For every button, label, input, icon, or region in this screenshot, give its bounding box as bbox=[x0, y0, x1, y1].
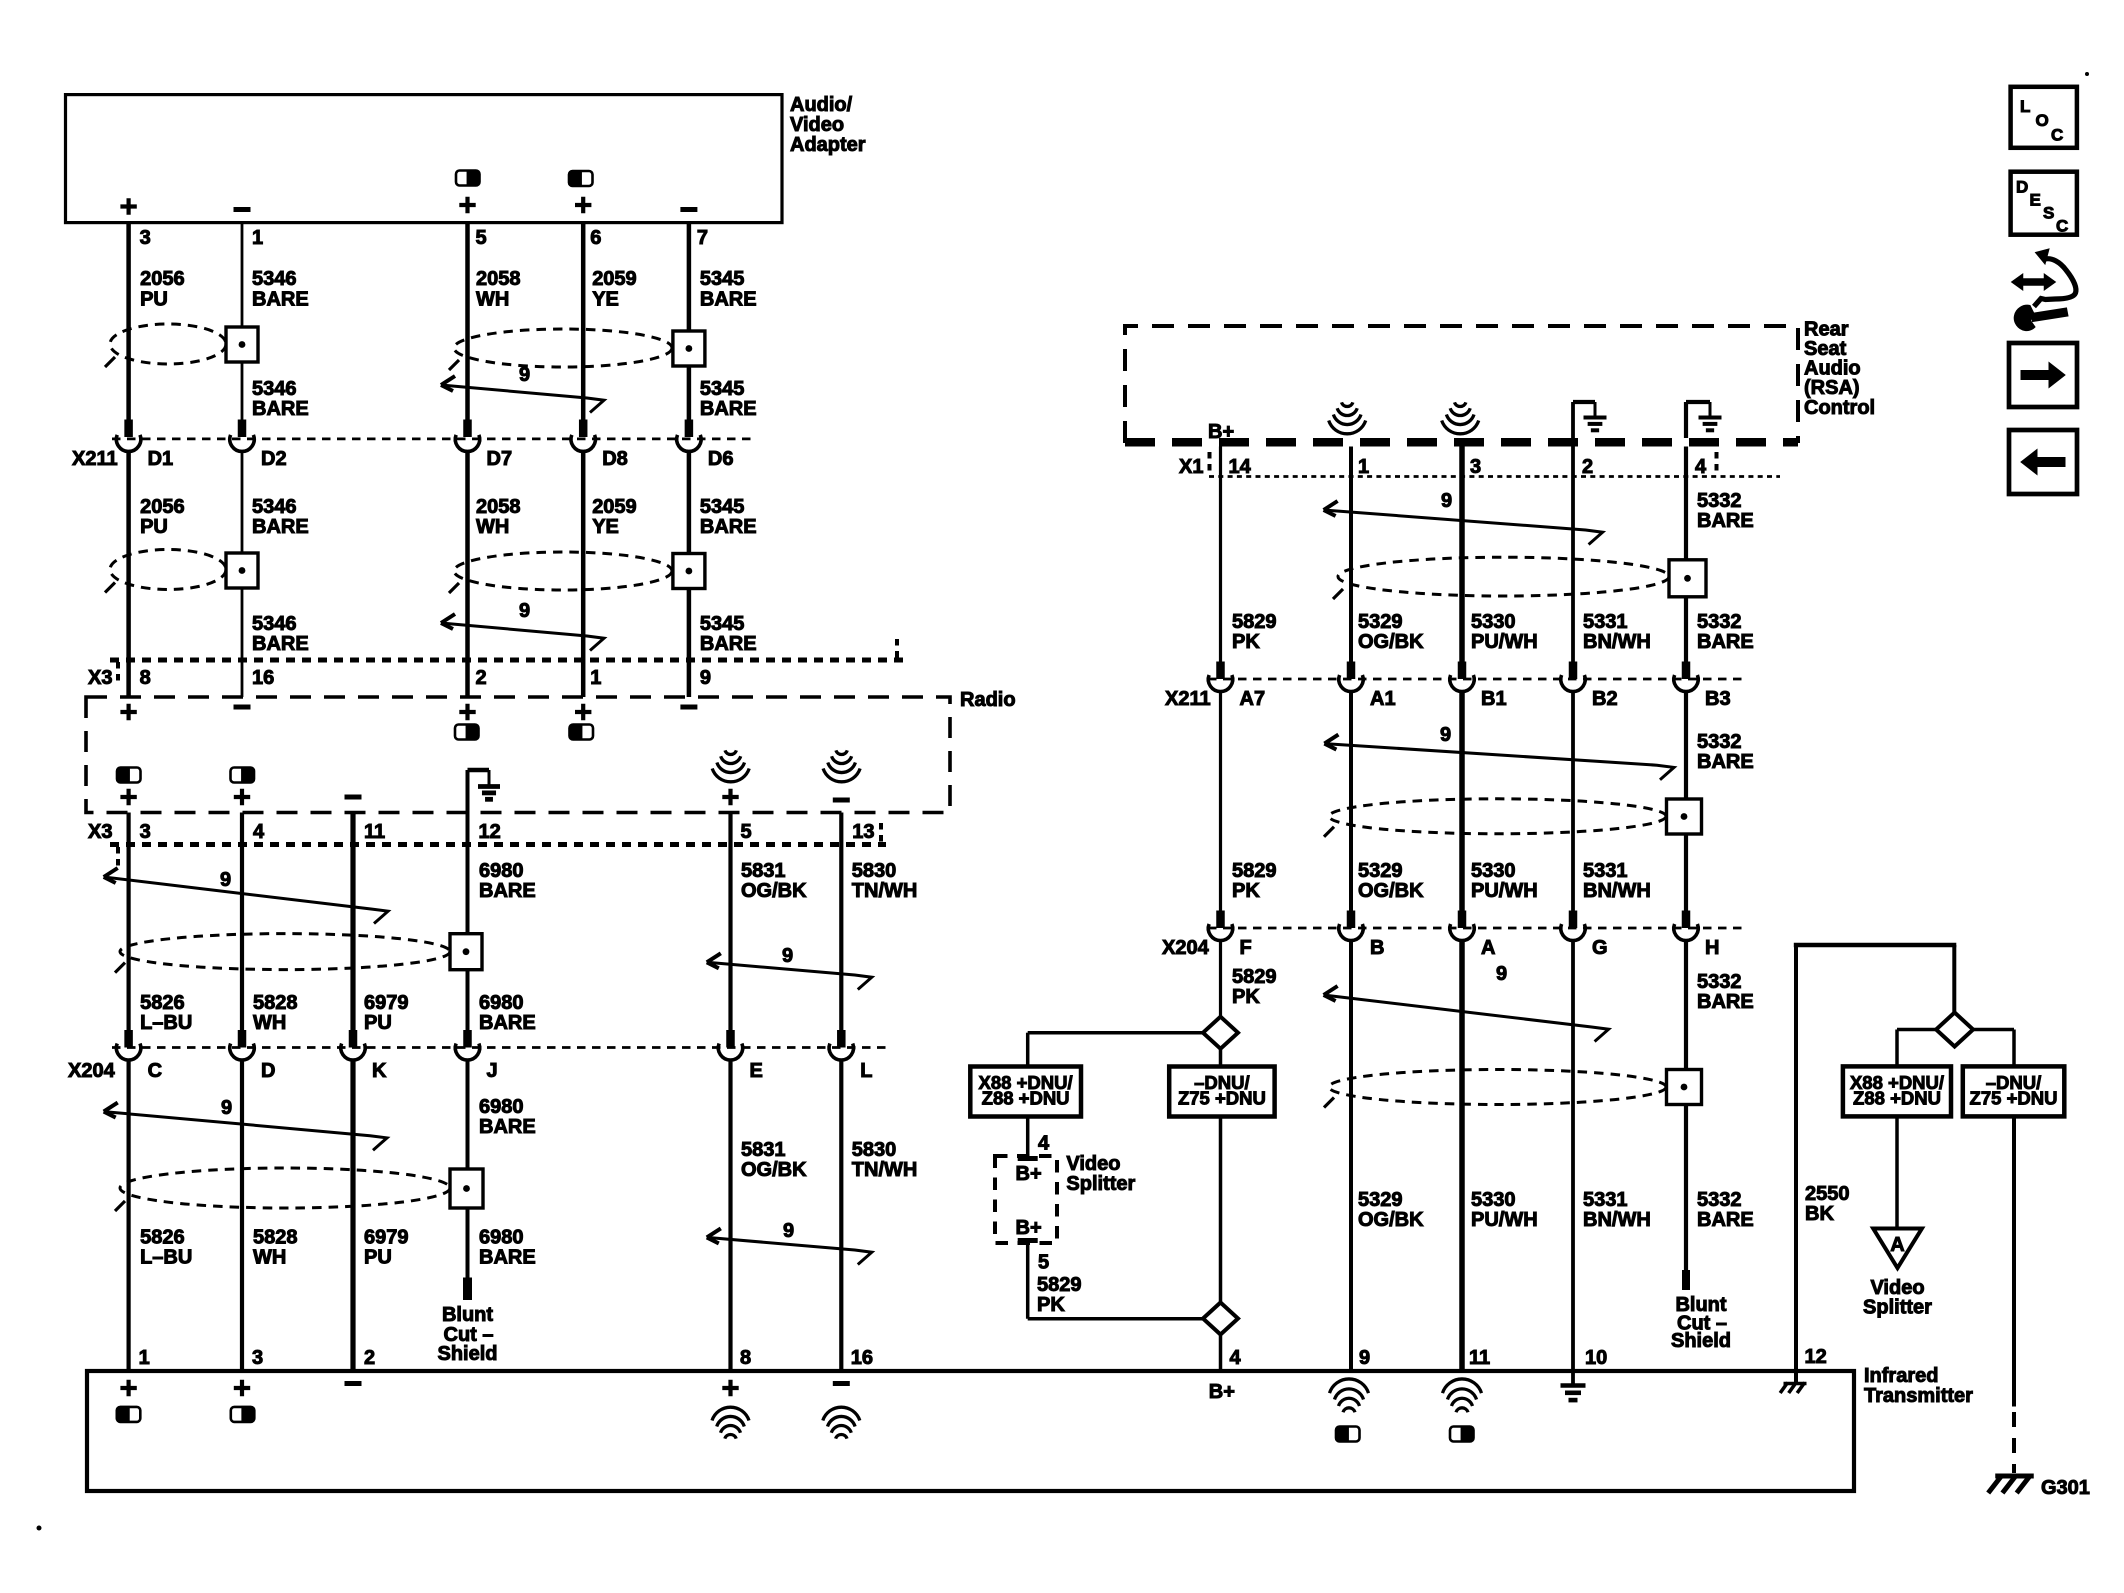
svg-text:WH: WH bbox=[476, 289, 509, 311]
IR pin 8 polarity + speaker icon bbox=[722, 1380, 738, 1396]
X204 H terminal bbox=[1682, 911, 1691, 929]
svg-text:G: G bbox=[1592, 937, 1608, 959]
svg-text:2059: 2059 bbox=[592, 268, 637, 290]
fuse box X88 +DNU/Z88 +DNU (right) bbox=[1843, 1066, 1951, 1116]
X211 D1 terminal bbox=[124, 420, 133, 438]
radio pin 1 polarity + icon bbox=[575, 704, 591, 720]
wire 5346 BARE (X211 D2 to radio 16) bbox=[241, 451, 244, 698]
svg-text:A: A bbox=[1890, 1234, 1904, 1256]
svg-text:9: 9 bbox=[519, 600, 530, 622]
svg-text:11: 11 bbox=[1469, 1347, 1490, 1369]
stray dot top right bbox=[2085, 72, 2089, 76]
svg-text:Splitter: Splitter bbox=[1066, 1173, 1135, 1195]
svg-text:B3: B3 bbox=[1705, 688, 1731, 710]
X211 D7 terminal bbox=[463, 420, 472, 438]
svg-text:5332: 5332 bbox=[1697, 731, 1742, 753]
svg-text:Radio: Radio bbox=[960, 689, 1016, 711]
svg-text:5829: 5829 bbox=[1232, 966, 1277, 988]
svg-text:BARE: BARE bbox=[700, 633, 757, 655]
svg-text:2: 2 bbox=[364, 1347, 375, 1369]
svg-text:PK: PK bbox=[1232, 986, 1260, 1008]
wire -DNU to ground G301 bbox=[2012, 1116, 2016, 1406]
svg-text:A: A bbox=[1481, 937, 1495, 959]
svg-text:5345: 5345 bbox=[700, 378, 745, 400]
splice diamond (5829 PK lower) bbox=[1203, 1303, 1238, 1335]
wire 5330 PU/WH (X1 3 to X211 B1) bbox=[1459, 447, 1465, 663]
svg-text:9: 9 bbox=[1440, 724, 1451, 746]
wire 6980 BARE (radio 12 to X204 J) bbox=[466, 813, 470, 1034]
icon wrench with arrows bbox=[2012, 275, 2055, 290]
svg-text:5345: 5345 bbox=[700, 613, 745, 635]
svg-text:BARE: BARE bbox=[1697, 751, 1754, 773]
svg-text:BARE: BARE bbox=[479, 1012, 536, 1034]
wire 5329 OG/BK (X204 B to IR 9) bbox=[1349, 940, 1353, 1372]
wire 5826 L-BU (radio 3 to X204 C) bbox=[127, 813, 131, 1034]
svg-text:L: L bbox=[2020, 97, 2030, 116]
wire 2058 WH (pin 5 to X211 D7) bbox=[465, 223, 470, 421]
svg-text:BARE: BARE bbox=[479, 880, 536, 902]
svg-text:6980: 6980 bbox=[479, 992, 524, 1014]
twisted-pair symbol 9 (2058/2059 upper) bbox=[441, 385, 604, 413]
X204 G terminal bbox=[1569, 911, 1578, 929]
svg-text:YE: YE bbox=[592, 289, 619, 311]
svg-text:D6: D6 bbox=[708, 448, 734, 470]
svg-text:Audio/: Audio/ bbox=[790, 94, 853, 116]
wire 5330 PU/WH (X211 B1 to X204 A) bbox=[1459, 691, 1465, 911]
svg-text:5345: 5345 bbox=[700, 496, 745, 518]
shield around 2058/2059 with drain 5345 (upper) bbox=[454, 329, 672, 367]
svg-text:5830: 5830 bbox=[852, 1139, 897, 1161]
svg-text:L–BU: L–BU bbox=[140, 1012, 192, 1034]
IR pin 9 speaker icon + video icon bbox=[1330, 1379, 1369, 1393]
IR pin 3 polarity + icon bbox=[234, 1380, 250, 1396]
component box: Audio/Video Adapter bbox=[66, 95, 783, 223]
video signal icon (pin 5) bbox=[456, 171, 480, 186]
wire 5831 OG/BK (radio 5 to X204 E) bbox=[728, 813, 732, 1034]
wire 5332 BARE (X204 H to blunt cut) bbox=[1684, 940, 1688, 1272]
component box: Video Splitter B+ (dashed) bbox=[995, 1156, 1057, 1243]
shield around right wires with drain 5332 (lower) bbox=[1329, 1070, 1666, 1105]
svg-text:F: F bbox=[1240, 937, 1252, 959]
svg-text:BN/WH: BN/WH bbox=[1583, 631, 1651, 653]
svg-text:8: 8 bbox=[140, 667, 151, 689]
svg-text:B+: B+ bbox=[1016, 1163, 1042, 1185]
connector X211 (right) dashed row bbox=[1208, 678, 1745, 681]
svg-text:5329: 5329 bbox=[1358, 1189, 1403, 1211]
X204 A terminal bbox=[1458, 911, 1467, 929]
svg-text:Blunt: Blunt bbox=[442, 1304, 493, 1326]
svg-text:B+: B+ bbox=[1208, 421, 1234, 443]
svg-text:4: 4 bbox=[253, 821, 265, 843]
twisted-pair symbol 9 (right middle) bbox=[1324, 744, 1674, 780]
icon box arrow left bbox=[2009, 430, 2077, 494]
wire 5828 WH (radio 4 to X204 D) bbox=[240, 813, 244, 1034]
svg-text:5: 5 bbox=[1038, 1252, 1049, 1274]
svg-text:PK: PK bbox=[1232, 880, 1260, 902]
svg-text:9: 9 bbox=[221, 1097, 232, 1119]
svg-text:D: D bbox=[261, 1060, 275, 1082]
IR pin 1 polarity + icon bbox=[120, 1380, 136, 1396]
twisted-pair symbol 9 (5831/5830 lower) bbox=[707, 1237, 872, 1264]
wire 2550 BK (to IR pin 12) bbox=[1794, 945, 1798, 1382]
svg-text:BARE: BARE bbox=[700, 398, 757, 420]
connector X204 (right) dashed row bbox=[1208, 927, 1745, 930]
svg-text:J: J bbox=[487, 1060, 498, 1082]
svg-text:9: 9 bbox=[700, 667, 711, 689]
svg-text:2058: 2058 bbox=[476, 268, 521, 290]
svg-text:5: 5 bbox=[476, 227, 487, 249]
svg-text:Shield: Shield bbox=[1671, 1330, 1731, 1352]
X211 D6 terminal bbox=[685, 420, 694, 438]
svg-text:9: 9 bbox=[1441, 490, 1452, 512]
svg-text:BN/WH: BN/WH bbox=[1583, 880, 1651, 902]
svg-text:BARE: BARE bbox=[479, 1116, 536, 1138]
svg-text:5332: 5332 bbox=[1697, 971, 1742, 993]
wire 5331 BN/WH (X211 B2 to X204 G) bbox=[1571, 691, 1575, 911]
svg-text:5831: 5831 bbox=[741, 1139, 786, 1161]
svg-text:OG/BK: OG/BK bbox=[1358, 631, 1424, 653]
svg-text:Video: Video bbox=[790, 114, 844, 136]
svg-text:BARE: BARE bbox=[252, 398, 309, 420]
X204 L terminal bbox=[837, 1030, 846, 1048]
svg-text:WH: WH bbox=[476, 516, 509, 538]
svg-text:A7: A7 bbox=[1240, 688, 1266, 710]
wire diamond to X88 (right) bbox=[1897, 1028, 1936, 1032]
radio pin 4 icon + polarity bbox=[231, 768, 255, 783]
X204 J terminal bbox=[463, 1030, 472, 1048]
connector X3 (upper) dotted row bbox=[110, 658, 905, 663]
svg-text:Video: Video bbox=[1066, 1153, 1120, 1175]
wire right branch to diamond bbox=[1952, 945, 1956, 1014]
wire diamond to IR pin 4 bbox=[1219, 1334, 1223, 1371]
radio pin 11 polarity bbox=[345, 795, 362, 800]
svg-text:K: K bbox=[372, 1060, 387, 1082]
radio pin 5 speaker icon + polarity bbox=[725, 750, 736, 754]
svg-text:5828: 5828 bbox=[253, 992, 298, 1014]
svg-text:B+: B+ bbox=[1209, 1381, 1235, 1403]
svg-text:BARE: BARE bbox=[1697, 1209, 1754, 1231]
svg-text:12: 12 bbox=[1805, 1346, 1827, 1368]
svg-text:9: 9 bbox=[1359, 1347, 1370, 1369]
X211 D8 terminal bbox=[579, 420, 588, 438]
splice diamond (right splitter) bbox=[1936, 1013, 1973, 1047]
svg-text:4: 4 bbox=[1230, 1347, 1242, 1369]
wire 6979 PU (radio 11 to X204 K) bbox=[350, 813, 355, 1034]
svg-text:14: 14 bbox=[1229, 456, 1252, 478]
twisted-pair symbol 9 (right lower) bbox=[1324, 995, 1609, 1042]
svg-text:D7: D7 bbox=[487, 448, 513, 470]
splice diamond (5829 PK upper) bbox=[1203, 1017, 1238, 1049]
fuse box -DNU/Z75 +DNU (right) bbox=[1963, 1066, 2065, 1116]
svg-text:OG/BK: OG/BK bbox=[741, 1159, 807, 1181]
svg-text:10: 10 bbox=[1585, 1347, 1607, 1369]
icon box LOC bbox=[2011, 87, 2077, 148]
twisted-pair symbol 9 (5826/5828/6979 lower) bbox=[104, 1112, 387, 1151]
svg-text:2056: 2056 bbox=[140, 268, 185, 290]
wire 5829 PK (X1 14 to X211 A7) bbox=[1219, 447, 1222, 663]
svg-text:5331: 5331 bbox=[1583, 611, 1628, 633]
svg-text:BK: BK bbox=[1805, 1203, 1834, 1225]
svg-text:5332: 5332 bbox=[1697, 1189, 1742, 1211]
component box: Radio (dashed) bbox=[86, 697, 950, 813]
wire 5329 OG/BK (X1 1 to X211 A1) bbox=[1349, 447, 1353, 663]
video signal icon (pin 6) bbox=[569, 171, 593, 186]
wire 2056 PU (pin 3 to X211 D1) bbox=[126, 223, 131, 421]
twisted-pair symbol 9 (5826/5828/6979 upper) bbox=[104, 877, 388, 924]
connector X3 (lower) dotted row bbox=[110, 842, 886, 847]
wire 6979 PU (X204 K to IR 2) bbox=[350, 1059, 355, 1371]
svg-text:9: 9 bbox=[1496, 963, 1507, 985]
svg-text:BARE: BARE bbox=[1697, 510, 1754, 532]
X211 A7 terminal bbox=[1216, 662, 1225, 680]
radio pin 8 polarity bbox=[120, 704, 136, 720]
svg-text:X204: X204 bbox=[1162, 937, 1210, 959]
svg-text:BARE: BARE bbox=[1697, 631, 1754, 653]
wire 2550 BK (top run) bbox=[1794, 943, 1957, 948]
wire diamond to -DNU (right) bbox=[1973, 1028, 2014, 1032]
svg-text:5346: 5346 bbox=[252, 613, 297, 635]
icon box DESC bbox=[2011, 172, 2077, 235]
svg-text:A1: A1 bbox=[1370, 688, 1396, 710]
icon box arrow right bbox=[2009, 343, 2077, 407]
svg-text:Transmitter: Transmitter bbox=[1864, 1385, 1973, 1407]
svg-text:5332: 5332 bbox=[1697, 490, 1742, 512]
wire splitter branch upper bbox=[1028, 1031, 1203, 1035]
wire -DNU to diamond lower bbox=[1219, 1049, 1223, 1067]
ground G301 bbox=[1995, 1474, 2034, 1479]
svg-text:3: 3 bbox=[252, 1347, 263, 1369]
svg-text:Shield: Shield bbox=[437, 1343, 497, 1365]
svg-text:5345: 5345 bbox=[700, 268, 745, 290]
wire 5346 BARE (pin 1 to X211 D2) bbox=[241, 223, 244, 421]
svg-text:3: 3 bbox=[140, 227, 151, 249]
svg-text:E: E bbox=[750, 1060, 763, 1082]
connector X1 dotted row bbox=[1209, 475, 1780, 478]
X204 C terminal bbox=[124, 1030, 133, 1048]
RSA pin 4 internal ground bbox=[1684, 402, 1688, 438]
shield around 5826/5828/6979 with drain 6980 (upper) bbox=[120, 934, 450, 970]
svg-text:X204: X204 bbox=[68, 1060, 116, 1082]
svg-text:Adapter: Adapter bbox=[790, 134, 866, 156]
svg-text:Control: Control bbox=[1804, 397, 1875, 419]
svg-text:5: 5 bbox=[741, 821, 752, 843]
wire 2059 YE (pin 6 to X211 D8) bbox=[581, 223, 586, 421]
X204 B terminal bbox=[1347, 911, 1356, 929]
wire 5332 BARE (X211 B3 to X204 H) bbox=[1684, 691, 1688, 911]
svg-text:L: L bbox=[860, 1060, 872, 1082]
shield around right wires with drain 5332 (upper) bbox=[1338, 557, 1669, 596]
twisted-pair symbol 9 (right upper) bbox=[1324, 510, 1603, 545]
svg-text:6980: 6980 bbox=[479, 1227, 524, 1249]
svg-text:OG/BK: OG/BK bbox=[1358, 880, 1424, 902]
IR pin 11 speaker icon + video icon bbox=[1443, 1379, 1482, 1393]
stray dot bottom left bbox=[37, 1526, 42, 1531]
RSA pin 2 internal ground bbox=[1571, 402, 1575, 438]
video splitter triangle A bbox=[1873, 1229, 1922, 1269]
wire 5829 PK (X204 F to splitter diamond) bbox=[1219, 940, 1222, 1018]
svg-text:6980: 6980 bbox=[479, 860, 524, 882]
wire 6980 BARE (X204 J to blunt cut) bbox=[466, 1059, 470, 1278]
svg-text:BN/WH: BN/WH bbox=[1583, 1209, 1651, 1231]
component box: Infrared Transmitter bbox=[87, 1371, 1854, 1491]
IR pin 16 polarity + speaker icon bbox=[833, 1381, 850, 1386]
svg-text:Z75 +DNU: Z75 +DNU bbox=[1178, 1088, 1266, 1109]
svg-text:B+: B+ bbox=[1016, 1217, 1042, 1239]
component box: Rear Seat Audio Control (dashed) bbox=[1125, 326, 1798, 443]
radio pin 13 speaker icon + polarity bbox=[836, 750, 847, 754]
svg-text:PU: PU bbox=[364, 1012, 392, 1034]
svg-text:BARE: BARE bbox=[252, 516, 309, 538]
svg-text:5331: 5331 bbox=[1583, 1189, 1628, 1211]
svg-text:OG/BK: OG/BK bbox=[1358, 1209, 1424, 1231]
svg-text:9: 9 bbox=[782, 945, 793, 967]
svg-text:5332: 5332 bbox=[1697, 611, 1742, 633]
X211 B3 terminal bbox=[1682, 662, 1691, 680]
wire X88 to video splitter B+ box bbox=[1026, 1117, 1030, 1157]
svg-text:L–BU: L–BU bbox=[140, 1247, 192, 1269]
X211 A1 terminal bbox=[1347, 662, 1356, 680]
svg-text:5329: 5329 bbox=[1358, 611, 1403, 633]
svg-text:X211: X211 bbox=[1165, 688, 1211, 710]
shield around right wires with drain 5332 (middle) bbox=[1329, 799, 1666, 834]
wire 5330 PU/WH (X204 A to IR 11) bbox=[1459, 940, 1465, 1372]
wire video splitter pin 5 (5829 PK) bbox=[1018, 1238, 1038, 1243]
fuse box -DNU/Z75 +DNU (left) bbox=[1169, 1067, 1274, 1117]
svg-text:X211: X211 bbox=[72, 448, 118, 470]
svg-text:1: 1 bbox=[139, 1347, 150, 1369]
svg-text:X3: X3 bbox=[88, 667, 112, 689]
radio pin 12 internal ground bbox=[466, 770, 470, 813]
svg-text:B1: B1 bbox=[1481, 688, 1507, 710]
svg-text:WH: WH bbox=[253, 1247, 286, 1269]
svg-text:Infrared: Infrared bbox=[1864, 1365, 1938, 1387]
svg-text:C: C bbox=[2051, 126, 2063, 145]
IR pin 10 internal ground bbox=[1571, 1373, 1575, 1385]
svg-text:2: 2 bbox=[476, 667, 487, 689]
svg-text:C: C bbox=[148, 1060, 162, 1082]
svg-text:B2: B2 bbox=[1592, 688, 1618, 710]
svg-text:9: 9 bbox=[220, 869, 231, 891]
svg-text:H: H bbox=[1705, 937, 1719, 959]
IR pin 2 polarity bbox=[345, 1381, 362, 1386]
svg-text:5829: 5829 bbox=[1037, 1274, 1082, 1296]
svg-text:TN/WH: TN/WH bbox=[852, 880, 918, 902]
svg-text:9: 9 bbox=[783, 1220, 794, 1242]
svg-text:X3: X3 bbox=[88, 821, 112, 843]
svg-text:G301: G301 bbox=[2041, 1477, 2090, 1499]
wire 5345 BARE (pin 7 to X211 D6) bbox=[687, 223, 692, 421]
svg-text:1: 1 bbox=[1358, 456, 1369, 478]
svg-text:TN/WH: TN/WH bbox=[852, 1159, 918, 1181]
svg-text:D1: D1 bbox=[148, 448, 174, 470]
wire 5828 WH (X204 D to IR 3) bbox=[240, 1059, 244, 1371]
wire 2058 WH (X211 D7 to radio 2) bbox=[465, 451, 470, 698]
wire 2059 YE (X211 D8 to radio 1) bbox=[581, 451, 586, 698]
svg-text:5829: 5829 bbox=[1232, 860, 1277, 882]
X204 K terminal bbox=[349, 1030, 358, 1048]
svg-text:BARE: BARE bbox=[252, 289, 309, 311]
svg-text:6979: 6979 bbox=[364, 992, 409, 1014]
connector X204 (left) dashed row bbox=[112, 1046, 886, 1049]
svg-text:7: 7 bbox=[697, 227, 708, 249]
X211 B2 terminal bbox=[1569, 662, 1578, 680]
svg-text:2550: 2550 bbox=[1805, 1183, 1850, 1205]
svg-text:D2: D2 bbox=[261, 448, 287, 470]
svg-text:Z88 +DNU: Z88 +DNU bbox=[982, 1088, 1070, 1109]
svg-text:5830: 5830 bbox=[852, 860, 897, 882]
svg-text:O: O bbox=[2036, 111, 2049, 130]
X211 D2 terminal bbox=[238, 420, 247, 438]
svg-text:PK: PK bbox=[1232, 631, 1260, 653]
RSA pin 1 speaker icon bbox=[1342, 402, 1353, 406]
svg-text:PU/WH: PU/WH bbox=[1471, 880, 1538, 902]
radio pin 2 polarity + icon bbox=[459, 704, 475, 720]
svg-text:2: 2 bbox=[1582, 456, 1593, 478]
svg-text:2058: 2058 bbox=[476, 496, 521, 518]
svg-text:5346: 5346 bbox=[252, 268, 297, 290]
svg-text:6979: 6979 bbox=[364, 1227, 409, 1249]
svg-text:D8: D8 bbox=[602, 448, 628, 470]
wire 5345 BARE (X211 D6 to radio 9) bbox=[687, 451, 692, 698]
svg-text:5331: 5331 bbox=[1583, 860, 1628, 882]
svg-text:3: 3 bbox=[1470, 456, 1481, 478]
X204 D terminal bbox=[238, 1030, 247, 1048]
svg-text:BARE: BARE bbox=[252, 633, 309, 655]
wire 5831 OG/BK (X204 E to IR 8) bbox=[728, 1059, 732, 1371]
svg-text:8: 8 bbox=[740, 1347, 751, 1369]
svg-text:5330: 5330 bbox=[1471, 611, 1516, 633]
svg-text:BARE: BARE bbox=[700, 516, 757, 538]
svg-text:WH: WH bbox=[253, 1012, 286, 1034]
wire 5826 L-BU (X204 C to IR 1) bbox=[127, 1059, 131, 1371]
svg-text:Z88 +DNU: Z88 +DNU bbox=[1853, 1088, 1941, 1109]
svg-text:1: 1 bbox=[252, 227, 263, 249]
svg-text:4: 4 bbox=[1695, 456, 1707, 478]
svg-text:C: C bbox=[2056, 217, 2068, 236]
shield around 2056 with drain 5346 (lower) bbox=[110, 550, 226, 590]
svg-text:D: D bbox=[2016, 178, 2028, 197]
RSA pin 3 speaker icon bbox=[1455, 402, 1466, 406]
svg-text:B: B bbox=[1370, 937, 1384, 959]
svg-text:16: 16 bbox=[851, 1347, 873, 1369]
blunt cut shield terminal (6980) bbox=[463, 1278, 472, 1301]
svg-text:PU/WH: PU/WH bbox=[1471, 631, 1538, 653]
wire X88 to video splitter triangle bbox=[1895, 1116, 1899, 1228]
svg-text:5826: 5826 bbox=[140, 1227, 185, 1249]
connector X211 (left) dashed row bbox=[112, 437, 756, 440]
svg-text:5828: 5828 bbox=[253, 1227, 298, 1249]
svg-text:PU/WH: PU/WH bbox=[1471, 1209, 1538, 1231]
svg-text:2056: 2056 bbox=[140, 496, 185, 518]
twisted-pair symbol 9 (2058/2059 lower) bbox=[441, 623, 604, 651]
svg-text:PK: PK bbox=[1037, 1294, 1065, 1316]
radio pin 3 icon + polarity bbox=[117, 768, 141, 783]
svg-text:S: S bbox=[2043, 204, 2054, 223]
wire 2056 PU (X211 D1 to radio 8) bbox=[126, 451, 131, 698]
wire 5331 BN/WH (X204 G to IR 10) bbox=[1571, 940, 1575, 1372]
svg-text:5826: 5826 bbox=[140, 992, 185, 1014]
wire 5331 BN/WH (X1 2 to X211 B2) bbox=[1571, 447, 1575, 663]
svg-text:5329: 5329 bbox=[1358, 860, 1403, 882]
svg-text:Splitter: Splitter bbox=[1863, 1297, 1932, 1319]
svg-text:BARE: BARE bbox=[1697, 991, 1754, 1013]
wire 5830 TN/WH (radio 13 to X204 L) bbox=[839, 813, 843, 1034]
radio pin 16 polarity bbox=[234, 705, 251, 710]
svg-text:PU: PU bbox=[140, 289, 168, 311]
svg-text:5330: 5330 bbox=[1471, 1189, 1516, 1211]
svg-text:5330: 5330 bbox=[1471, 860, 1516, 882]
svg-text:E: E bbox=[2030, 191, 2041, 210]
